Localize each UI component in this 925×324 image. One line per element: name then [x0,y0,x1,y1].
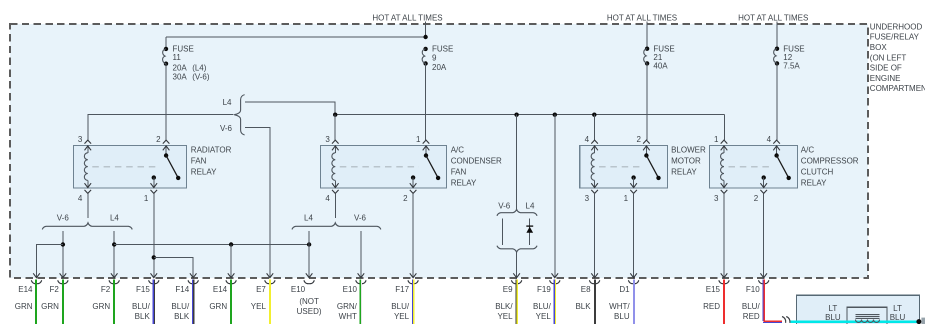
terminal E10 wire GRN/WHT [337,273,366,324]
svg-text:30A: 30A [173,73,188,82]
terminal F17 wire BLU/YEL [391,273,418,324]
svg-text:(ON LEFT: (ON LEFT [870,53,907,62]
svg-text:4: 4 [585,135,590,144]
svg-text:L4: L4 [526,201,535,210]
A/C compressor clutch assembly box (bottom right) [797,295,920,324]
wire bus end down to terminal E10 (not used) [308,245,310,278]
svg-text:ENGINE: ENGINE [870,74,901,83]
blower motor relay internal dashed link [599,166,639,168]
terminal F14 wire BLU/BLK [171,273,198,324]
fuse 21 (40A) [645,47,649,51]
svg-text:F2: F2 [101,285,111,294]
blower motor relay box [580,146,668,189]
junction at clutch box right edge [916,319,921,324]
svg-text:E9: E9 [503,285,513,294]
svg-text:4: 4 [78,194,83,203]
svg-text:V-6: V-6 [57,214,70,223]
terminal F10 wire BLU/RED [742,273,769,321]
terminal E8 wire BLK [575,273,599,324]
svg-text:HOT AT ALL TIMES: HOT AT ALL TIMES [607,13,677,22]
radiator fan relay box [74,146,187,189]
wire compressor pin 2 to terminal F10 [763,193,765,277]
wire radiator pin 1 down [153,193,155,277]
svg-text:3: 3 [585,194,590,203]
terminal E15 wire RED [703,273,729,324]
terminal E9 wire BLK/YEL [495,273,522,324]
wire V-6 plain branch [502,218,504,245]
svg-text:BLK: BLK [575,302,591,311]
svg-text:BLK: BLK [174,312,190,321]
wire bus corner down to compressor clutch relay pin 1 [723,115,725,141]
svg-text:E14: E14 [213,285,228,294]
terminal F15 wire BLU/BLK [132,273,159,324]
blower motor relay pin 1 [630,190,637,194]
wire bus corner down to fuse 11 [165,37,167,49]
svg-text:1: 1 [624,194,629,203]
wire diode assembly to terminal E9 [516,252,518,277]
terminal F2 wire GRN [92,273,119,324]
wire L4 diode branch [529,218,531,245]
svg-text:D1: D1 [619,285,630,294]
svg-text:E10: E10 [343,285,358,294]
wire fuse 9 to A/C condenser fan relay pin 1 [425,64,427,141]
brace splitting pin3 feed into L4 / V-6 branches [234,95,244,135]
svg-text:HOT AT ALL TIMES: HOT AT ALL TIMES [372,13,442,22]
svg-text:RELAY: RELAY [451,178,477,187]
svg-text:1: 1 [144,194,149,203]
blower motor relay switch (normally open) [645,146,647,156]
svg-text:1: 1 [714,135,719,144]
svg-text:2: 2 [403,194,408,203]
wire fuse 21 to blower motor relay pin 2 [646,63,648,140]
radiator fan relay internal dashed link [92,166,159,168]
A/C compressor clutch relay box [709,146,797,189]
svg-text:SIDE OF: SIDE OF [870,64,902,73]
wire L4 branch to condenser pin 3 node [245,102,335,115]
junction diode assembly tap [514,113,518,117]
svg-text:GRN/: GRN/ [337,302,358,311]
svg-text:BLU/: BLU/ [742,302,761,311]
wire tap down to terminal E14 (mid) [230,245,232,278]
svg-text:20A: 20A [432,63,447,72]
wire fuse 12 to A/C compressor clutch relay pin 4 [776,63,778,140]
terminal E14 wire GRN [15,273,42,324]
A/C compressor clutch relay pin 2 [760,190,767,194]
wire bus down to blower relay pin 4 [593,115,595,141]
svg-text:F2: F2 [50,285,60,294]
A/C compressor clutch relay internal dashed link [729,166,770,168]
svg-text:F17: F17 [395,285,409,294]
svg-text:BLU: BLU [614,312,630,321]
svg-text:L4: L4 [223,98,232,107]
svg-text:GRN: GRN [15,302,33,311]
svg-text:V-6: V-6 [498,201,511,210]
A/C compressor clutch relay pin 3 [721,190,728,194]
variant brace under radiator pin 4 [42,223,132,230]
junction condenser pin3 tap [333,113,337,117]
svg-text:WHT: WHT [339,312,357,321]
svg-text:FAN: FAN [451,167,467,176]
svg-text:2: 2 [754,194,759,203]
variant brace under condenser pin 4 [292,223,381,230]
A/C condenser fan relay switch (normally open) [425,146,427,156]
svg-text:FUSE: FUSE [432,45,453,54]
svg-text:3: 3 [714,194,719,203]
svg-text:COMPARTMENT): COMPARTMENT) [870,84,925,93]
clutch coil core lines [856,315,880,319]
svg-text:V-6: V-6 [354,214,367,223]
clutch coil component box [847,307,887,324]
svg-text:CONDENSER: CONDENSER [451,156,502,165]
wire bus to terminal F19 [554,115,556,278]
svg-text:11: 11 [173,53,182,62]
svg-text:COMPRESSOR: COMPRESSOR [801,156,859,165]
radiator fan relay pin 3 [85,140,92,144]
svg-text:HOT AT ALL TIMES: HOT AT ALL TIMES [738,13,808,22]
junction blower relay pin 4 tap [592,113,596,117]
diode D (cathode bar up, conducts upward) [526,225,533,227]
wire V-6 branch to terminal E10 (GRN/WHT) [360,231,362,278]
svg-text:GRN: GRN [92,302,110,311]
wire bus down to diode assembly brace [516,115,518,210]
svg-text:E10: E10 [291,285,306,294]
wire branch to terminal E14 (left) [37,245,63,278]
wire LT BLU through clutch box [790,321,919,323]
svg-text:BLU: BLU [890,313,906,322]
svg-text:4: 4 [325,194,330,203]
svg-text:GRN: GRN [41,302,59,311]
svg-text:RELAY: RELAY [671,167,697,176]
junction pin1 split [152,255,156,259]
svg-text:F10: F10 [746,285,760,294]
svg-text:FAN: FAN [191,156,207,165]
svg-text:RED: RED [703,302,720,311]
junction at fuse 9 tap [423,35,427,39]
svg-text:3: 3 [325,135,330,144]
fuse 11 (20A L4 / 30A V-6) [164,47,168,51]
wire fuse 11 to radiator fan relay pin 2 [165,64,167,141]
wire radiator pin 4 to variant brace [87,193,89,218]
svg-text:YEL: YEL [251,302,267,311]
svg-text:V-6: V-6 [220,124,233,133]
A/C compressor clutch relay switch (normally open) [776,146,778,156]
underhood fuse/relay box outline (dashed) with light blue fill [10,24,868,278]
wire from HOT label down to fuse 21 [646,22,648,49]
svg-text:20A: 20A [173,63,188,72]
svg-text:BLOWER: BLOWER [671,145,706,154]
wire branch to terminal F14 [154,257,193,277]
svg-text:RED: RED [743,312,760,321]
svg-text:LT: LT [893,304,902,313]
svg-text:BLU/: BLU/ [391,302,410,311]
svg-text:E7: E7 [256,285,266,294]
A/C compressor clutch relay pin 1 [721,140,728,144]
blower motor relay pin 3 [591,190,598,194]
wire stub exiting right [921,318,925,324]
wire compressor pin 3 to terminal E15 [723,193,725,277]
svg-text:GRN: GRN [209,302,227,311]
radiator fan relay pin 4 [85,190,92,194]
A/C condenser fan relay pin 3 [332,140,339,144]
svg-text:L4: L4 [304,214,313,223]
svg-text:RELAY: RELAY [191,167,217,176]
svg-text:YEL: YEL [497,312,513,321]
svg-text:YEL: YEL [394,312,410,321]
clutch coil winding arcs [856,320,880,323]
A/C compressor clutch relay coil [723,146,725,153]
A/C condenser fan relay pin 4 [332,190,339,194]
terminal F2 wire GRN [41,273,68,324]
svg-text:F14: F14 [175,285,189,294]
wire L4 branch down joins bus [308,231,310,245]
svg-text:9: 9 [432,53,437,62]
wire bus down to condenser pin 3 [334,115,336,141]
svg-text:3: 3 [78,135,83,144]
svg-text:CLUTCH: CLUTCH [801,167,834,176]
wire L4 branch down to bus [113,231,115,278]
svg-text:A/C: A/C [801,145,815,154]
node ground bus y=244.5 [114,244,309,246]
blower motor relay pin 4 [591,140,598,144]
svg-text:2: 2 [636,135,641,144]
terminal D1 wire WHT/BLU [609,273,639,324]
svg-text:F15: F15 [136,285,150,294]
svg-text:USED): USED) [297,307,322,316]
svg-text:40A: 40A [653,61,668,70]
blower motor relay coil [594,146,596,153]
junction L4 branch / ground bus [112,242,116,246]
radiator fan relay switch (normally open) [165,146,167,156]
junction tap to terminal E14 (mid) [229,242,233,246]
svg-text:WHT/: WHT/ [609,302,630,311]
svg-text:BLK: BLK [135,312,151,321]
terminal F19 wire BLU/YEL [533,273,560,324]
svg-text:E14: E14 [18,285,33,294]
svg-text:(L4): (L4) [192,63,207,72]
wire V-6 branch down [62,231,64,278]
svg-text:YEL: YEL [536,312,552,321]
svg-text:F19: F19 [537,285,551,294]
terminal E10 (not used) [291,273,322,316]
svg-text:A/C: A/C [451,145,465,154]
wire F10 BLU/RED elbow to connector [764,320,782,322]
wire blower pin 1 to terminal D1 [633,193,635,277]
svg-text:BOX: BOX [870,43,888,52]
svg-text:RELAY: RELAY [801,178,827,187]
svg-text:7.5A: 7.5A [783,61,800,70]
radiator fan relay pin 2 [163,140,170,144]
terminal E14 wire GRN [209,273,236,324]
A/C condenser fan relay pin 2 [410,190,417,194]
A/C condenser fan relay coil [334,146,336,153]
radiator fan relay coil [87,146,89,153]
wire hot bus top-left (y=37) [166,36,426,38]
svg-text:BLU/: BLU/ [533,302,552,311]
diode assembly top brace [497,209,537,216]
wire from HOT label down to bus (x=425.6) [425,22,427,38]
wire blower pin 3 to terminal E8 [594,193,596,277]
svg-text:2: 2 [156,135,161,144]
svg-text:BLK/: BLK/ [495,302,513,311]
wire radiator relay pin 3 riser to bus [88,115,234,141]
svg-text:E15: E15 [706,285,721,294]
wire V-6 branch to terminal E7 [245,128,270,278]
blower motor relay pin 2 [643,140,650,144]
radiator fan relay pin 1 [151,190,158,194]
diode assembly bottom brace [497,246,537,253]
svg-text:(V-6): (V-6) [192,73,210,82]
svg-text:BLU/: BLU/ [171,302,190,311]
fuse 9 (20A) [423,47,427,51]
svg-text:BLU/: BLU/ [132,302,151,311]
svg-text:MOTOR: MOTOR [671,156,701,165]
junction bus end / condenser L4 branch [307,242,311,246]
svg-text:FUSE/RELAY: FUSE/RELAY [870,33,920,42]
junction V-6 split to E14 [61,242,65,246]
node bus y=114.7 (L4 circuit) [335,114,724,116]
junction terminal F19 tap [553,113,557,117]
svg-text:BLU: BLU [825,313,841,322]
svg-text:E8: E8 [581,285,591,294]
terminal E7 wire YEL [251,273,275,324]
svg-text:1: 1 [416,135,421,144]
wire from HOT label down to fuse 12 [776,22,778,49]
svg-text:4: 4 [767,135,772,144]
svg-text:UNDERHOOD: UNDERHOOD [870,22,923,31]
inline connector (double arc) [782,317,786,323]
A/C condenser fan relay internal dashed link [340,166,419,168]
svg-text:RADIATOR: RADIATOR [191,145,232,154]
wire condenser pin 4 to variant brace [334,193,336,218]
fuse 12 (7.5A) [775,47,779,51]
svg-text:L4: L4 [110,214,119,223]
wire condenser pin 2 to terminal F17 [412,193,414,277]
A/C condenser fan relay box [321,146,447,189]
svg-text:(NOT: (NOT [299,297,319,306]
A/C compressor clutch relay pin 4 [773,140,780,144]
A/C condenser fan relay pin 1 [423,140,430,144]
svg-text:LT: LT [829,304,838,313]
